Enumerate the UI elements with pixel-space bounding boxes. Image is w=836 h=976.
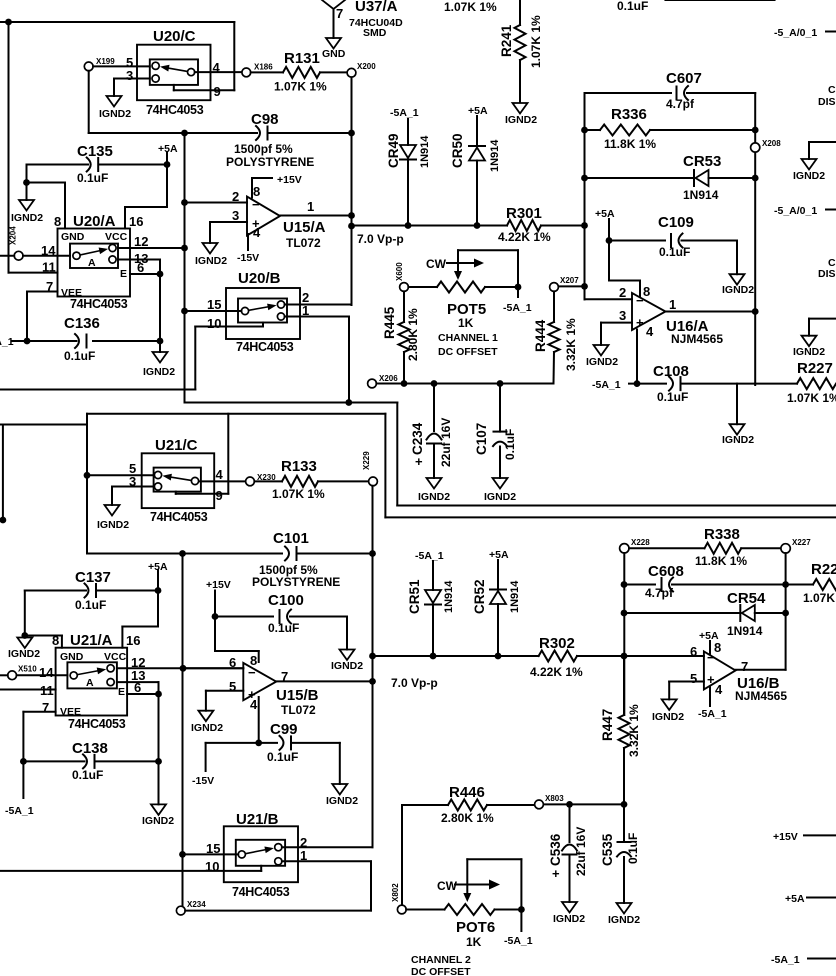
- connector X199: [84, 57, 115, 71]
- resistor R444: [533, 291, 578, 383]
- ground IGND2 (C136): [143, 341, 175, 378]
- svg-text:TL072: TL072: [281, 703, 316, 717]
- label U21/C pins: [129, 461, 224, 503]
- wire X199 to pin5: [93, 65, 150, 67]
- capacitor C109: [609, 214, 737, 274]
- connector X208: [751, 139, 782, 152]
- svg-text:15: 15: [206, 841, 220, 856]
- svg-text:C100: C100: [268, 592, 304, 609]
- svg-text:GND: GND: [60, 651, 84, 663]
- wire pin5 (U21/C): [87, 474, 154, 476]
- svg-text:8: 8: [714, 640, 721, 655]
- ground IGND2 (R241): [505, 103, 537, 126]
- svg-text:CW: CW: [437, 879, 458, 893]
- wire pin7 VEE ch2: [23, 712, 55, 762]
- ground IGND2 (U21/C pin3): [97, 505, 129, 531]
- svg-text:0.1uF: 0.1uF: [77, 171, 108, 185]
- svg-text:0.1uF: 0.1uF: [268, 621, 299, 635]
- label U16/A minus plus: [636, 293, 644, 330]
- svg-text:R446: R446: [449, 784, 485, 801]
- svg-text:POT6: POT6: [456, 919, 495, 936]
- svg-text:R227: R227: [797, 360, 833, 377]
- svg-text:IGND2: IGND2: [97, 519, 129, 531]
- wire U16/A output: [666, 308, 759, 315]
- label C DIS (right 2): [818, 257, 836, 280]
- svg-text:+5A: +5A: [785, 893, 805, 905]
- svg-text:GND: GND: [322, 48, 346, 60]
- wire pin13 ch2: [117, 668, 159, 694]
- svg-text:74HC4053: 74HC4053: [146, 103, 204, 117]
- label -5A_1 (C136): [0, 336, 14, 348]
- svg-text:+: +: [248, 687, 256, 702]
- svg-text:-5A_1: -5A_1: [698, 708, 727, 720]
- label U15/A: [283, 219, 326, 250]
- svg-text:X200: X200: [357, 62, 376, 71]
- label U15/B minus plus: [248, 665, 256, 702]
- svg-text:1K: 1K: [466, 935, 482, 949]
- connector X228: [620, 538, 651, 553]
- svg-text:7: 7: [336, 6, 343, 21]
- label +5A (C137): [148, 561, 168, 573]
- wire U20/C pin9 riser: [174, 22, 235, 90]
- label U16/B: [735, 675, 787, 703]
- connector X204: [0, 226, 23, 260]
- ground IGND2 (C135): [11, 200, 43, 224]
- svg-text:22uf 16V: 22uf 16V: [439, 418, 453, 467]
- svg-text:IGND2: IGND2: [331, 660, 363, 672]
- svg-text:0.1uF: 0.1uF: [626, 833, 640, 864]
- wire U15/A pin4 -15V: [237, 234, 259, 264]
- label -5A_1 (C108): [592, 379, 621, 391]
- svg-text:10: 10: [207, 316, 221, 331]
- svg-text:2.80K 1%: 2.80K 1%: [441, 811, 494, 825]
- svg-text:-15V: -15V: [237, 252, 259, 264]
- svg-text:11: 11: [42, 260, 56, 275]
- svg-text:4: 4: [646, 324, 654, 339]
- svg-text:+: +: [552, 866, 560, 881]
- svg-text:8: 8: [253, 184, 260, 199]
- svg-text:4.7pf: 4.7pf: [645, 586, 674, 600]
- svg-text:TL072: TL072: [286, 236, 321, 250]
- op-amp U15/B: [243, 663, 276, 700]
- label C DIS (right 1): [818, 84, 836, 108]
- wire U16/B pin5: [669, 682, 704, 700]
- label 7.0 Vp-p (ch2): [391, 676, 438, 690]
- svg-text:4.7pf: 4.7pf: [666, 97, 695, 111]
- svg-text:IGND2: IGND2: [418, 491, 450, 503]
- svg-text:11: 11: [40, 683, 54, 698]
- wire U16/B pin4: [698, 688, 727, 721]
- svg-text:-5_A/0_1: -5_A/0_1: [774, 205, 817, 217]
- svg-text:X208: X208: [762, 139, 781, 148]
- wire U20/B pin10: [0, 316, 263, 390]
- label -5A_1 (POT5): [503, 287, 532, 314]
- connector X510: [0, 665, 37, 680]
- svg-text:C107: C107: [474, 423, 489, 455]
- svg-text:CR54: CR54: [727, 590, 766, 607]
- mux U21/C: [142, 437, 215, 508]
- svg-text:−: −: [248, 665, 256, 680]
- label U21/A part: [68, 717, 126, 731]
- svg-text:2.80K 1%: 2.80K 1%: [406, 308, 420, 361]
- wire U16/A pin4: [636, 330, 638, 384]
- wire left bus ch2: [179, 554, 186, 907]
- potentiometer POT6: [406, 859, 525, 949]
- ground IGND2 (C137): [8, 638, 40, 661]
- svg-text:IGND2: IGND2: [142, 815, 174, 827]
- resistor R447: [600, 656, 641, 805]
- label U37/A: [349, 0, 403, 39]
- capacitor C99: [206, 721, 340, 784]
- svg-text:4.22K 1%: 4.22K 1%: [530, 665, 583, 679]
- svg-text:X510: X510: [18, 665, 37, 674]
- label -5_A/0_1 (2): [774, 205, 836, 217]
- wire signal ch2: [369, 653, 538, 660]
- wire main input bus top: [0, 19, 234, 273]
- svg-text:9: 9: [214, 84, 221, 99]
- svg-text:R445: R445: [382, 306, 397, 339]
- mux U21/B switch: [236, 840, 285, 866]
- wire U21/C pin9 riser: [176, 414, 229, 494]
- mux U21/C switch: [154, 468, 201, 492]
- capacitor C607: [585, 70, 756, 111]
- label partial 0.1uF top: [617, 0, 648, 13]
- wire X510 to pin14: [17, 665, 68, 680]
- svg-text:C136: C136: [64, 315, 100, 332]
- wire pin3 stub (U21/C): [112, 487, 154, 506]
- svg-text:7.0 Vp-p: 7.0 Vp-p: [391, 676, 438, 690]
- label +5A (U16/B): [699, 630, 719, 642]
- label U20/B part: [236, 340, 294, 354]
- svg-text:0.1uF: 0.1uF: [503, 429, 517, 460]
- label +5A (C135): [158, 143, 178, 155]
- wire feedback right column: [754, 93, 756, 385]
- svg-text:X229: X229: [362, 451, 371, 470]
- label -5A_1 (POT6): [504, 910, 533, 948]
- resistor R445: [382, 291, 420, 383]
- svg-text:X207: X207: [560, 276, 579, 285]
- svg-text:IGND2: IGND2: [586, 356, 618, 368]
- resistor R301: [498, 205, 588, 244]
- ground IGND2 (C99): [326, 784, 358, 807]
- svg-text:U20/C: U20/C: [153, 28, 196, 45]
- svg-text:R22: R22: [811, 561, 836, 578]
- wire pin7 VEE: [27, 292, 58, 342]
- svg-text:X206: X206: [379, 374, 398, 383]
- wire X207 to pin2 column: [559, 285, 585, 287]
- svg-text:IGND2: IGND2: [99, 108, 131, 120]
- svg-text:X600: X600: [395, 262, 404, 281]
- wire pin12 ch2: [117, 655, 243, 672]
- label +15V (C100): [206, 579, 231, 591]
- svg-text:12: 12: [134, 234, 148, 249]
- wire pin4 to X186: [195, 71, 242, 73]
- svg-text:74HC4053: 74HC4053: [150, 510, 208, 524]
- svg-text:R336: R336: [611, 106, 647, 123]
- svg-text:C234: C234: [410, 422, 425, 455]
- svg-text:NJM4565: NJM4565: [671, 332, 723, 346]
- label 7.0 Vp-p (ch1): [357, 232, 404, 246]
- svg-text:X204: X204: [9, 226, 18, 245]
- svg-text:16: 16: [126, 633, 140, 648]
- connector X207: [550, 276, 580, 291]
- svg-text:X234: X234: [187, 900, 206, 909]
- svg-text:4: 4: [253, 225, 261, 240]
- diode CR54: [624, 590, 786, 638]
- svg-text:GND: GND: [61, 231, 85, 243]
- svg-text:C135: C135: [77, 143, 113, 160]
- svg-text:-5_A/0_1: -5_A/0_1: [774, 27, 817, 39]
- svg-text:C98: C98: [251, 111, 279, 128]
- svg-text:8: 8: [643, 284, 650, 299]
- svg-text:DIS: DIS: [818, 96, 836, 108]
- svg-text:IGND2: IGND2: [722, 284, 754, 296]
- capacitor C234: [410, 384, 453, 479]
- label CW + arrow (POT5): [426, 257, 484, 271]
- svg-text:1N914: 1N914: [683, 188, 719, 202]
- svg-text:-5A_1: -5A_1: [5, 805, 34, 817]
- capacitor C136: [12, 315, 163, 363]
- label CW + arrow (POT6): [437, 879, 500, 893]
- diode CR50: [450, 116, 501, 226]
- wire offset rail ch2: [543, 801, 627, 808]
- label U20/A pin11: [42, 260, 56, 275]
- label +5A (CR52): [489, 549, 509, 561]
- wire U20/B pin15: [181, 297, 241, 314]
- svg-text:74HC4053: 74HC4053: [70, 297, 128, 311]
- svg-text:1N914: 1N914: [419, 135, 431, 168]
- svg-text:5: 5: [229, 679, 236, 694]
- capacitor C536: [548, 804, 588, 902]
- svg-text:16: 16: [129, 214, 143, 229]
- resistor R338: [629, 526, 781, 568]
- mux U20/A: [58, 213, 131, 297]
- mux U20/C switch: [150, 59, 198, 85]
- label U15/A minus plus: [252, 197, 260, 231]
- label CHANNEL 2 DC OFFSET: [411, 954, 471, 976]
- svg-text:1: 1: [669, 297, 676, 312]
- svg-text:1N914: 1N914: [443, 580, 455, 613]
- svg-text:C608: C608: [648, 563, 684, 580]
- svg-text:-5A_1: -5A_1: [415, 550, 444, 562]
- svg-text:1.07K 1%: 1.07K 1%: [272, 487, 325, 501]
- mux U20/B switch: [238, 299, 287, 323]
- capacitor C608: [624, 563, 786, 600]
- wire +5A drop: [164, 153, 171, 208]
- ground IGND2 (U15/A pin3): [195, 243, 227, 267]
- label U20/C pin4: [213, 60, 221, 75]
- svg-text:C535: C535: [600, 833, 615, 866]
- wire U21/B pin15: [183, 841, 239, 856]
- label U16/A: [666, 318, 723, 346]
- svg-text:VCC: VCC: [104, 651, 127, 663]
- svg-text:R338: R338: [704, 526, 740, 543]
- label U21/A GND VCC: [60, 651, 127, 663]
- svg-text:2: 2: [232, 189, 239, 204]
- svg-text:3: 3: [126, 68, 133, 83]
- wire X199 down to C135 line: [89, 71, 257, 133]
- svg-text:1N914: 1N914: [509, 580, 521, 613]
- wire X234 line: [185, 910, 371, 912]
- capacitor C108: [629, 363, 755, 404]
- svg-text:A: A: [86, 677, 94, 689]
- svg-text:3: 3: [232, 208, 239, 223]
- svg-text:1.07K 1%: 1.07K 1%: [529, 15, 543, 68]
- svg-text:DC OFFSET: DC OFFSET: [438, 346, 498, 358]
- ground IGND2 (C107): [484, 478, 516, 503]
- svg-text:R301: R301: [506, 205, 542, 222]
- svg-text:0.1uF: 0.1uF: [617, 0, 648, 13]
- svg-text:C109: C109: [658, 214, 694, 231]
- mux U20/B: [226, 270, 300, 339]
- diode CR53: [585, 153, 759, 202]
- wire U21/B pin1: [282, 848, 371, 911]
- svg-text:R447: R447: [600, 709, 615, 741]
- svg-text:X199: X199: [96, 57, 115, 66]
- svg-text:4.22K 1%: 4.22K 1%: [498, 230, 551, 244]
- capacitor C101: [87, 530, 373, 589]
- svg-text:IGND2: IGND2: [793, 346, 825, 358]
- resistor R336: [585, 106, 759, 151]
- svg-text:X803: X803: [545, 794, 564, 803]
- power rail +5A: [785, 893, 836, 905]
- svg-text:IGND2: IGND2: [326, 795, 358, 807]
- label -5A_1 (CR51): [415, 550, 444, 562]
- svg-text:1500pf 5%: 1500pf 5%: [234, 142, 293, 156]
- svg-text:1: 1: [307, 199, 314, 214]
- svg-text:1: 1: [302, 303, 309, 318]
- wire U21/B pin2: [282, 835, 373, 850]
- connector X186: [242, 63, 273, 77]
- wire X200 column: [348, 77, 355, 305]
- connector X234: [176, 900, 206, 915]
- wire line B (input bus ch2): [0, 414, 836, 518]
- svg-text:R444: R444: [533, 319, 548, 352]
- connector X803: [535, 794, 565, 809]
- label -5A_1 (U21/A): [5, 761, 34, 817]
- svg-text:5: 5: [690, 671, 697, 686]
- svg-text:SMD: SMD: [363, 27, 387, 39]
- connector X600: [395, 262, 408, 292]
- wire U16/A pin2: [585, 285, 633, 300]
- wire U21/A pin11: [0, 683, 56, 698]
- wire pin12: [118, 234, 188, 251]
- svg-text:A: A: [88, 257, 96, 269]
- label U16/B minus plus: [707, 650, 715, 687]
- power rail +15V: [773, 831, 836, 843]
- svg-text:11.8K 1%: 11.8K 1%: [695, 554, 747, 568]
- svg-text:DC OFFSET: DC OFFSET: [411, 966, 471, 976]
- label U21/A pins top: [52, 633, 140, 648]
- svg-text:R302: R302: [539, 635, 575, 652]
- svg-text:0.1uF: 0.1uF: [75, 598, 106, 612]
- svg-text:-5A_1: -5A_1: [592, 379, 621, 391]
- svg-text:IGND2: IGND2: [191, 722, 223, 734]
- wire U15/A +15V: [252, 174, 302, 198]
- svg-text:+: +: [636, 315, 644, 330]
- svg-text:3: 3: [619, 308, 626, 323]
- wire ch2 input riser: [84, 414, 91, 554]
- svg-text:U20/A: U20/A: [73, 213, 116, 230]
- diode CR51: [407, 561, 455, 656]
- svg-text:IGND2: IGND2: [195, 255, 227, 267]
- svg-text:0.1uF: 0.1uF: [72, 768, 103, 782]
- label U20/C pin9: [214, 84, 221, 99]
- svg-text:74HC4053: 74HC4053: [232, 885, 290, 899]
- wire X228 column: [621, 553, 628, 715]
- svg-text:14: 14: [41, 243, 56, 258]
- svg-text:7.0 Vp-p: 7.0 Vp-p: [357, 232, 404, 246]
- svg-text:−: −: [252, 197, 260, 212]
- wire U15/A pin3: [210, 222, 247, 243]
- connector X206: [368, 374, 399, 388]
- mux U21/A switch: [67, 662, 117, 689]
- svg-text:X802: X802: [391, 883, 400, 902]
- ground IGND2 (right 2): [793, 319, 836, 358]
- svg-text:CR52: CR52: [472, 579, 487, 614]
- wire left edge stub ch2: [0, 425, 6, 524]
- label +5A (CR50): [468, 105, 488, 117]
- svg-text:U15/B: U15/B: [276, 687, 319, 704]
- svg-text:CW: CW: [426, 257, 447, 271]
- wire left bus down: [184, 133, 186, 403]
- ground IGND2 (U16/B pin5): [652, 699, 684, 723]
- svg-text:8: 8: [52, 633, 59, 648]
- resistor R241: [499, 0, 543, 102]
- wire X229 drop: [369, 486, 376, 847]
- resistor R446: [402, 784, 535, 825]
- wire +5A drop ch2: [122, 570, 158, 648]
- svg-text:+15V: +15V: [206, 579, 231, 591]
- svg-text:-5A_1: -5A_1: [390, 107, 419, 119]
- diode CR49: [386, 119, 431, 226]
- svg-text:9: 9: [216, 488, 223, 503]
- op-amp U15/A: [247, 197, 280, 236]
- capacitor C98: [181, 111, 355, 169]
- svg-text:1: 1: [300, 848, 307, 863]
- label -15V (C99): [192, 743, 214, 787]
- mux U21/B: [224, 811, 298, 882]
- svg-text:IGND2: IGND2: [505, 114, 537, 126]
- label U20/A pin7: [46, 279, 53, 294]
- wire U16/B pin8 supply: [709, 641, 711, 654]
- svg-text:-5A_1: -5A_1: [504, 935, 533, 947]
- svg-text:X186: X186: [254, 63, 273, 72]
- diode CR52: [472, 560, 521, 656]
- mux U20/A switch: [70, 244, 118, 269]
- label U20/A part: [70, 297, 128, 311]
- capacitor C137: [25, 569, 162, 612]
- svg-text:CR53: CR53: [683, 153, 721, 170]
- label U16/B pins: [690, 640, 748, 697]
- label U20/A GND VCC: [61, 231, 128, 243]
- wire U15/B pin6: [183, 667, 244, 669]
- svg-text:POLYSTYRENE: POLYSTYRENE: [252, 575, 340, 589]
- svg-text:R133: R133: [281, 458, 317, 475]
- label U21/B part: [232, 885, 290, 899]
- svg-text:CHANNEL 2: CHANNEL 2: [411, 954, 471, 966]
- svg-text:14: 14: [39, 665, 54, 680]
- svg-text:IGND2: IGND2: [11, 212, 43, 224]
- svg-text:3.32K 1%: 3.32K 1%: [564, 318, 578, 371]
- ground IGND2 (right 1): [793, 142, 836, 182]
- svg-text:IGND2: IGND2: [8, 648, 40, 660]
- svg-text:X228: X228: [631, 538, 650, 547]
- ground IGND2 (U15/B pin5): [191, 711, 223, 734]
- wire R446 left drop: [401, 805, 403, 905]
- capacitor C107: [474, 384, 517, 479]
- svg-text:CR51: CR51: [407, 579, 422, 614]
